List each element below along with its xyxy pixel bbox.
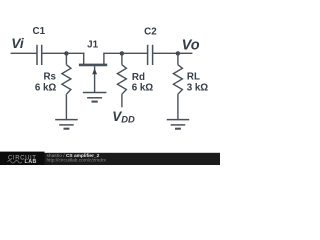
svg-text:VDD: VDD [112, 109, 135, 124]
node Vo junction [176, 51, 180, 55]
wire C1 to node A [42, 52, 67, 54]
resistor Rs [35, 53, 71, 120]
wire J1 to node B [103, 52, 122, 54]
svg-text:RL: RL [187, 72, 200, 83]
wire C2 to node Vo [153, 52, 178, 54]
node A junction [64, 51, 68, 55]
svg-text:6 kΩ: 6 kΩ [132, 83, 154, 94]
capacitor C2 [144, 27, 157, 65]
ground (gate of J1) [83, 93, 107, 102]
svg-text:Vo: Vo [182, 38, 200, 54]
svg-text:3 kΩ: 3 kΩ [187, 83, 209, 94]
node B junction [120, 51, 124, 55]
resistor RL [173, 53, 208, 120]
wire node A to J1 [66, 52, 84, 54]
svg-text:Rd: Rd [132, 72, 145, 83]
wire input stub [11, 52, 37, 54]
svg-text:C1: C1 [33, 26, 46, 37]
footer watermark bar [0, 152, 220, 165]
svg-text:6 kΩ: 6 kΩ [35, 83, 57, 94]
svg-text:C2: C2 [144, 27, 157, 38]
svg-text:LAB: LAB [25, 159, 37, 165]
ground (RL) [167, 120, 190, 129]
svg-text:http://circuitlab.com/c/zmdrx: http://circuitlab.com/c/zmdrx [47, 158, 107, 164]
wire node B to C2 [122, 52, 148, 54]
transistor J1 [79, 40, 107, 93]
svg-text:J1: J1 [87, 40, 98, 51]
svg-text:Rs: Rs [43, 72, 56, 83]
resistor Rd [117, 53, 153, 107]
footer CircuitLab logo [8, 155, 37, 165]
capacitor C1 [33, 26, 46, 65]
ground (Rs) [55, 120, 77, 129]
svg-text:Vi: Vi [11, 36, 25, 51]
wire Vo stub [178, 52, 193, 54]
